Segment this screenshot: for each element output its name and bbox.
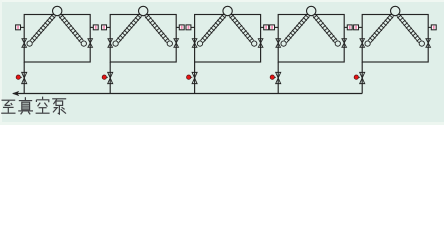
valve V3L on left wall bbox=[192, 39, 197, 48]
drain line E2 bbox=[109, 62, 111, 94]
coil left E3 bbox=[201, 14, 226, 42]
drain line E4 bbox=[277, 62, 279, 94]
handwheel stub V1B bbox=[21, 76, 22, 78]
gauge G1R stub bbox=[90, 26, 93, 28]
gauge G4R bbox=[347, 25, 352, 30]
handwheel stub V5B bbox=[359, 76, 360, 78]
handwheel red dot V4B bbox=[270, 75, 274, 79]
valve V5L on left wall bbox=[360, 39, 365, 48]
top port circle E1 bbox=[53, 6, 62, 15]
gauge G1L bbox=[16, 25, 21, 30]
gauge G5R bbox=[431, 25, 436, 30]
coil end circle right E1 bbox=[81, 41, 86, 46]
light top edge band bbox=[0, 0, 444, 2]
valve V5R on right wall bbox=[426, 39, 431, 48]
gauge G2R stub bbox=[176, 26, 179, 28]
coil left E1 bbox=[30, 14, 55, 42]
top port circle E2 bbox=[139, 6, 148, 15]
coil right E5 bbox=[397, 14, 421, 42]
coil end circle left E1 bbox=[27, 41, 32, 46]
coil left E4 bbox=[284, 14, 309, 42]
coil right E3 bbox=[229, 14, 253, 42]
drain valve V2B bbox=[108, 72, 113, 83]
vessel E5 body bbox=[362, 15, 428, 63]
drain valve V4B bbox=[276, 72, 281, 83]
gauge G4L bbox=[270, 25, 275, 30]
coil left E2 bbox=[116, 14, 141, 42]
gauge G2L stub bbox=[106, 26, 110, 28]
valve V3R on right wall bbox=[258, 39, 263, 48]
gauge G3L stub bbox=[191, 26, 195, 28]
coil right E1 bbox=[59, 14, 83, 42]
valve V2L on left wall bbox=[108, 39, 113, 48]
gauge G2R bbox=[179, 25, 184, 30]
gauge G4R stub bbox=[344, 26, 347, 28]
top port circle E3 bbox=[223, 6, 232, 15]
vessel E4 body bbox=[278, 15, 344, 63]
gauge G3L bbox=[186, 25, 191, 30]
light left edge band bbox=[0, 0, 2, 125]
gauge G4L stub bbox=[274, 26, 278, 28]
arrow to vacuum pump bbox=[12, 91, 19, 96]
drain line E1 bbox=[23, 62, 25, 94]
gauge G1R bbox=[93, 25, 98, 30]
handwheel red dot V2B bbox=[102, 75, 106, 79]
vacuum manifold line bbox=[13, 93, 362, 95]
label text 至真空泵 (to vacuum pump) bbox=[1, 97, 66, 115]
vessel E3 body bbox=[195, 15, 261, 63]
coil end circle right E3 bbox=[252, 41, 257, 46]
coil end circle left E2 bbox=[113, 41, 118, 46]
handwheel stub V4B bbox=[275, 76, 276, 78]
coil right E2 bbox=[145, 14, 169, 42]
gauge G5L bbox=[354, 25, 359, 30]
coil end circle left E4 bbox=[281, 41, 286, 46]
coil end circle right E4 bbox=[335, 41, 340, 46]
top port circle E4 bbox=[307, 6, 316, 15]
valve V2R on right wall bbox=[174, 39, 179, 48]
coil end circle left E3 bbox=[197, 41, 202, 46]
valve V1R on right wall bbox=[88, 39, 93, 48]
coil left E5 bbox=[368, 14, 393, 42]
handwheel stub V3B bbox=[191, 76, 192, 78]
gauge G5L stub bbox=[358, 26, 362, 28]
gauge G5R stub bbox=[428, 26, 431, 28]
light bottom edge band bbox=[0, 122, 444, 125]
valve V4R on right wall bbox=[342, 39, 347, 48]
handwheel red dot V3B bbox=[187, 75, 191, 79]
coil end circle right E5 bbox=[419, 41, 424, 46]
gauge G2L bbox=[102, 25, 107, 30]
handwheel red dot V5B bbox=[354, 75, 358, 79]
drain valve V3B bbox=[192, 72, 197, 83]
valve V1L on left wall bbox=[22, 39, 27, 48]
drain line E3 bbox=[194, 62, 196, 94]
vessel E1 body bbox=[24, 15, 90, 63]
coil right E4 bbox=[313, 14, 337, 42]
vessel E2 body bbox=[110, 15, 176, 63]
drain valve V5B bbox=[360, 72, 365, 83]
coil end circle right E2 bbox=[167, 41, 172, 46]
gauge G3R bbox=[264, 25, 269, 30]
coil end circle left E5 bbox=[365, 41, 370, 46]
gauge G1L stub bbox=[20, 26, 24, 28]
drain line E5 bbox=[361, 62, 363, 94]
gauge G3R stub bbox=[261, 26, 264, 28]
drain valve V1B bbox=[22, 72, 27, 83]
top port circle E5 bbox=[391, 6, 400, 15]
valve V4L on left wall bbox=[276, 39, 281, 48]
handwheel red dot V1B bbox=[16, 75, 20, 79]
handwheel stub V2B bbox=[107, 76, 108, 78]
